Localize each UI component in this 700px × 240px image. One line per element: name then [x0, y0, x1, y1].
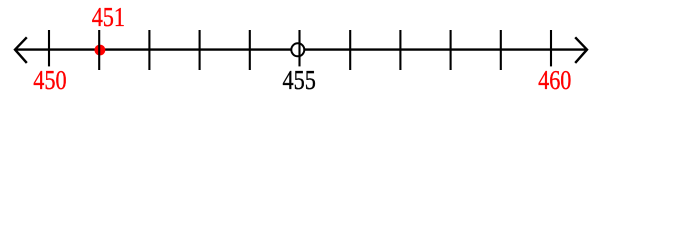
- tick 455: [298, 30, 300, 66]
- svg-text:451: 451: [92, 2, 125, 32]
- svg-text:460: 460: [538, 65, 571, 95]
- tick 452: [148, 30, 150, 70]
- tick 454: [249, 30, 251, 70]
- svg-text:455: 455: [283, 65, 316, 95]
- tick 450: [48, 30, 50, 66]
- tick 460: [550, 30, 552, 66]
- node: red point at 451: [95, 45, 106, 56]
- number line diagram 450-460: [0, 0, 700, 100]
- left arrowhead: [15, 37, 27, 63]
- tick 451: [98, 30, 100, 70]
- tick 456: [349, 30, 351, 70]
- tick 458: [450, 30, 452, 70]
- right arrowhead: [575, 37, 587, 63]
- tick 457: [399, 30, 401, 70]
- tick 459: [500, 30, 502, 70]
- node: open circle at 455: [291, 43, 304, 56]
- wire: main number line: [15, 48, 587, 50]
- svg-text:450: 450: [33, 65, 66, 95]
- tick 453: [199, 30, 201, 70]
